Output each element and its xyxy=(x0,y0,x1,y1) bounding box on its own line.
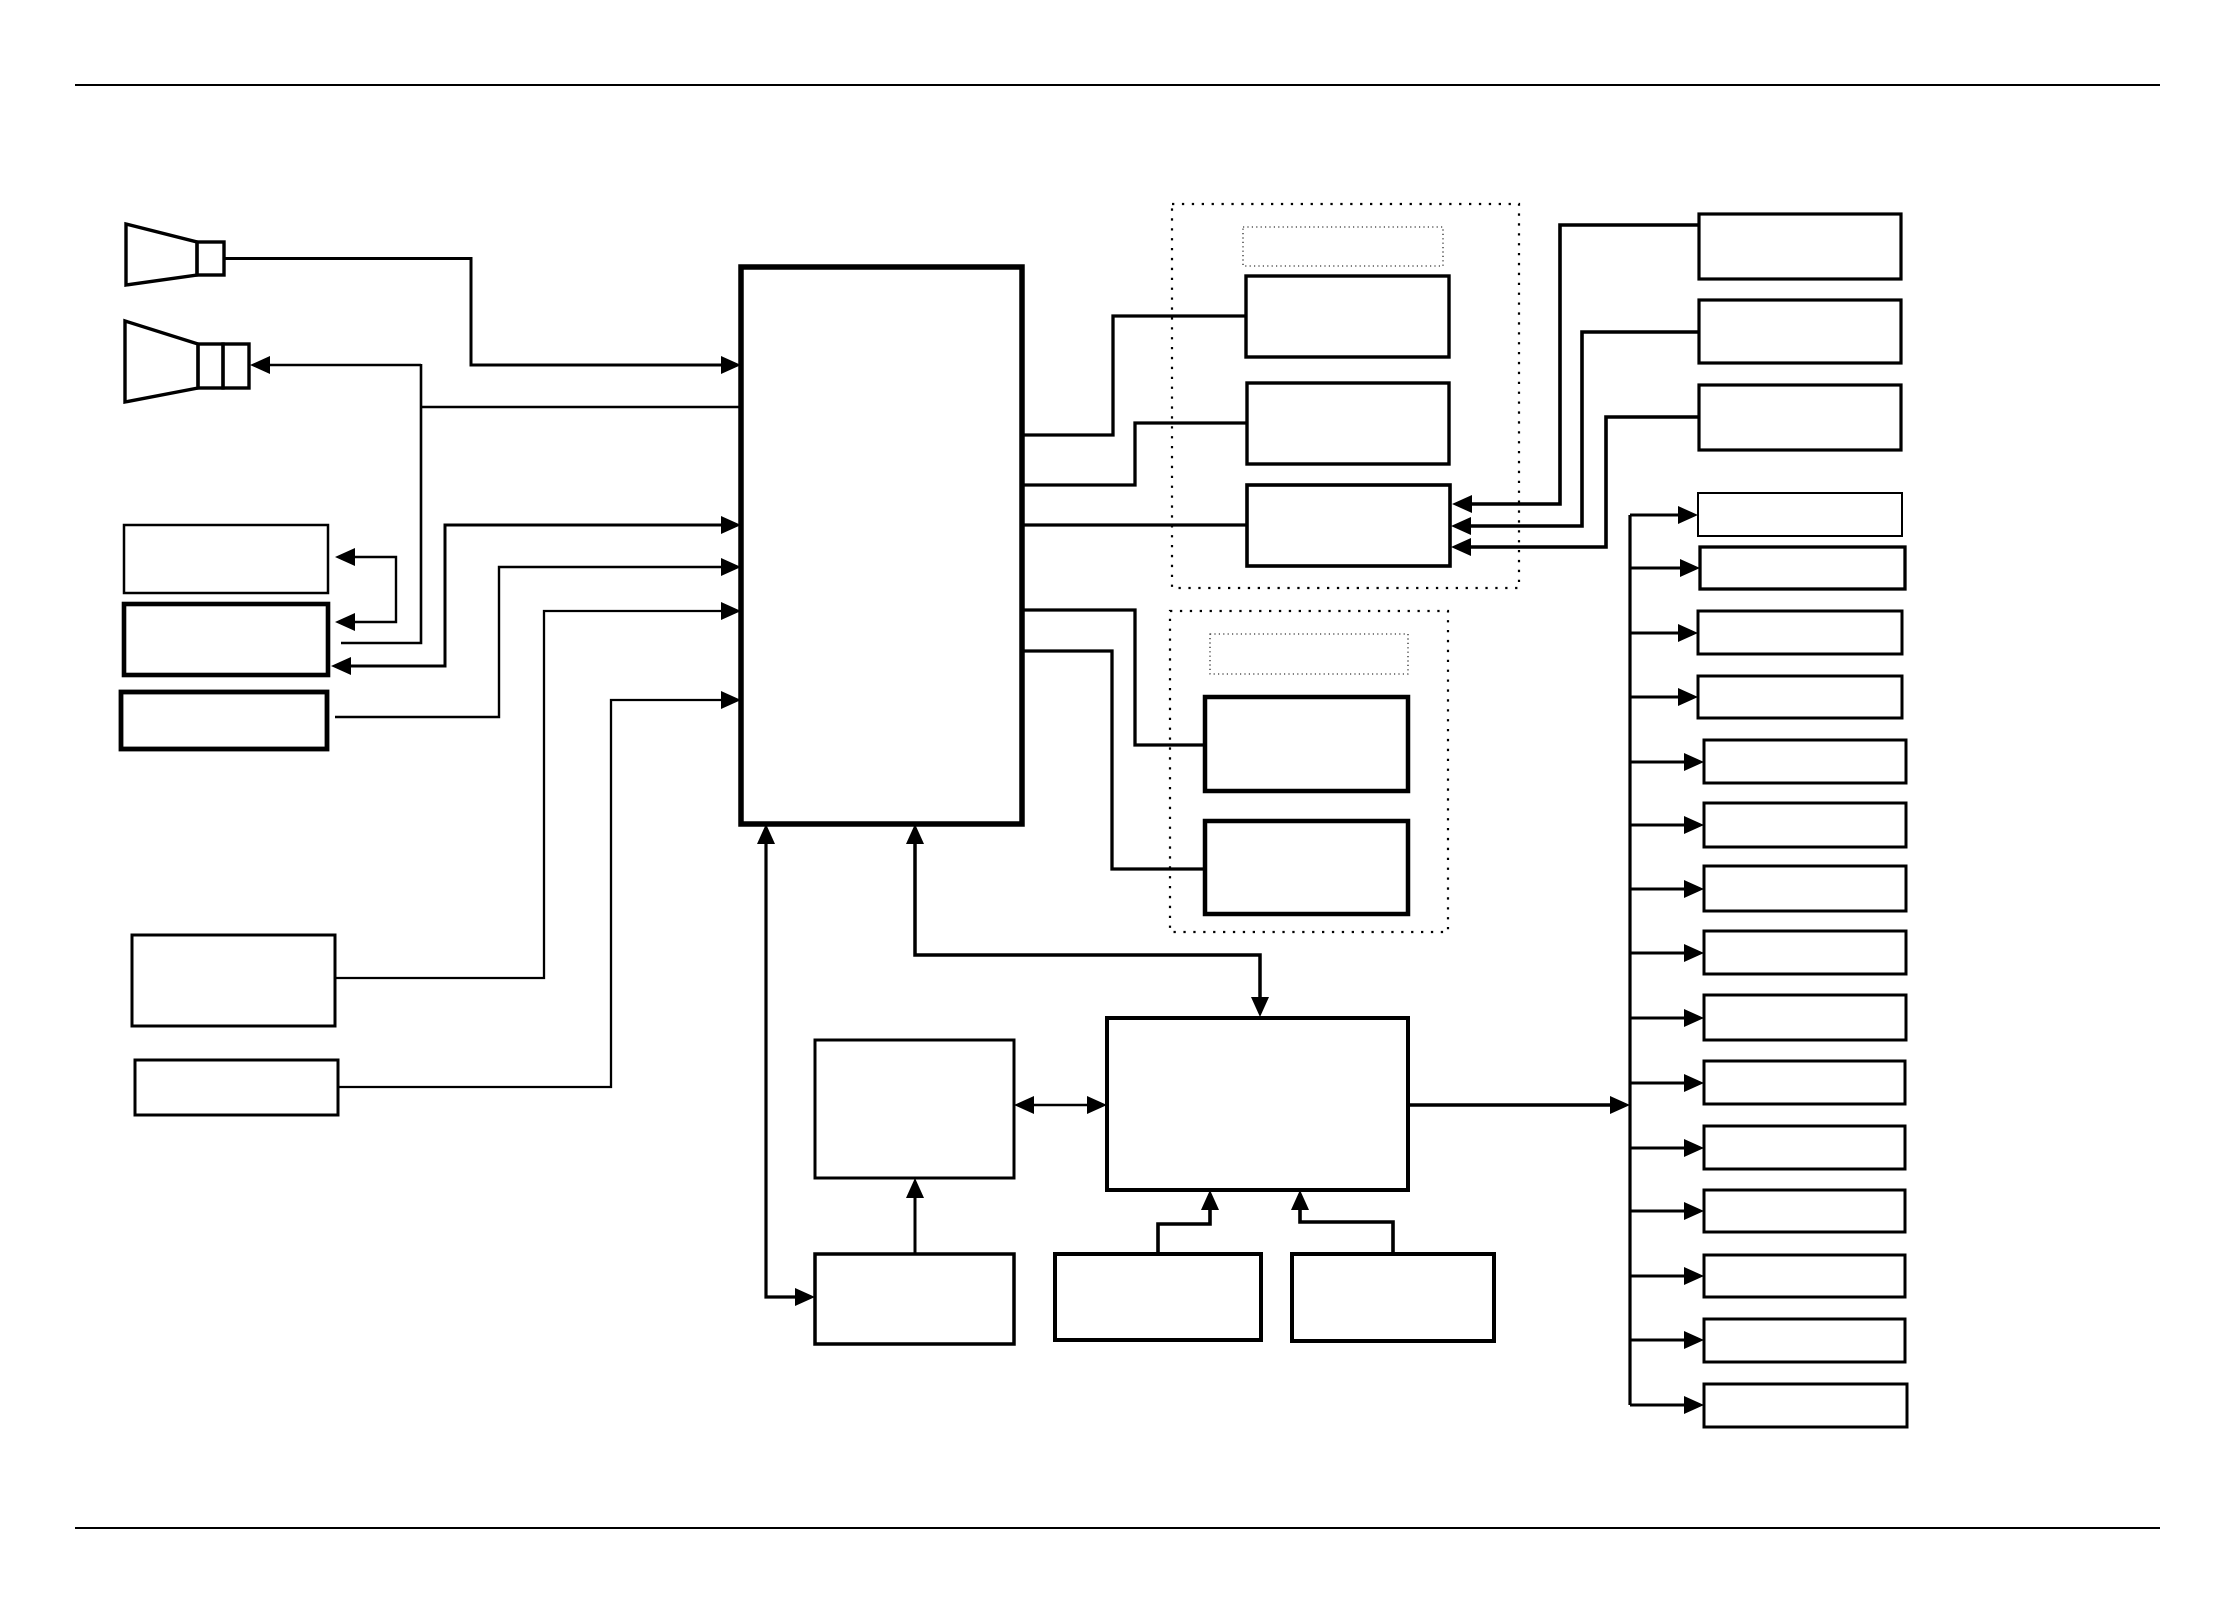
feeder branch to F4 xyxy=(1630,688,1698,706)
speaker SP1 xyxy=(126,224,224,285)
block F1 xyxy=(1698,493,1902,536)
speaker SP2 xyxy=(125,321,249,402)
block I xyxy=(815,1040,1014,1178)
block F11 xyxy=(1704,1126,1905,1169)
wire L2 to main block y700 xyxy=(338,691,741,1087)
block F12 xyxy=(1704,1190,1905,1232)
block L2 xyxy=(135,1060,338,1115)
feeder branch to F13 xyxy=(1630,1267,1704,1285)
feeder branch to F2 xyxy=(1630,559,1700,577)
block F9 xyxy=(1704,995,1906,1040)
wire main block to G2 xyxy=(1022,651,1205,869)
block F5 xyxy=(1704,740,1906,783)
feeder branch to F6 xyxy=(1630,816,1704,834)
wire C to main block y567 xyxy=(335,558,741,717)
dotted group 2 xyxy=(1170,611,1448,932)
block F14 xyxy=(1704,1319,1905,1362)
feeder branch to F12 xyxy=(1630,1202,1704,1220)
dotted group 1 xyxy=(1172,204,1519,588)
wire bidirectional main block and H xyxy=(906,824,1269,1017)
feeder branch to F1 xyxy=(1630,506,1698,524)
block F2 xyxy=(1700,547,1905,589)
feeder branch to F14 xyxy=(1630,1331,1704,1349)
feeder branch to F15 xyxy=(1630,1396,1704,1414)
block J1 xyxy=(1055,1254,1261,1340)
page bottom rule xyxy=(75,1527,2160,1529)
block F15 xyxy=(1704,1384,1907,1427)
feeder branch to F10 xyxy=(1630,1074,1704,1092)
wire E1 to D3 xyxy=(1452,225,1699,513)
feeder branch to F5 xyxy=(1630,753,1704,771)
block F3 xyxy=(1698,611,1902,654)
block F7 xyxy=(1704,866,1906,911)
wire main block to D3 xyxy=(1022,523,1247,526)
wire H output to feeder bus xyxy=(1408,1096,1630,1114)
block E3 xyxy=(1699,385,1901,450)
wire E2 to D3 xyxy=(1451,332,1699,535)
block B xyxy=(124,604,328,675)
wire SP1 output to main block input y365 xyxy=(224,259,741,375)
block D3 xyxy=(1247,485,1450,566)
block F8 xyxy=(1704,931,1906,974)
wire J1 to H xyxy=(1158,1190,1219,1254)
wire bidirectional main block and K xyxy=(757,824,815,1306)
block E2 xyxy=(1699,300,1901,363)
block A xyxy=(124,525,328,593)
block H xyxy=(1107,1018,1408,1190)
block G2 xyxy=(1205,821,1408,914)
wire bidirectional B and main block y525 xyxy=(331,516,741,675)
block D2 xyxy=(1247,383,1449,464)
dotted label box 2 xyxy=(1210,634,1408,674)
block C xyxy=(121,692,327,749)
feeder branch to F8 xyxy=(1630,944,1704,962)
wire main block to D1 xyxy=(1022,316,1246,435)
block E1 xyxy=(1699,214,1901,279)
block F13 xyxy=(1704,1255,1905,1297)
block F6 xyxy=(1704,803,1906,847)
wire K to I (arrow up) xyxy=(906,1178,924,1254)
feeder branch to F9 xyxy=(1630,1009,1704,1027)
block G1 xyxy=(1205,697,1408,791)
wire main block to G1 xyxy=(1022,610,1205,745)
main block U1 xyxy=(741,267,1022,824)
feeder branch to F3 xyxy=(1630,624,1698,642)
wire vertical bus x421 from SP2 line down to block B output xyxy=(341,364,421,643)
block F10 xyxy=(1704,1061,1905,1104)
block F4 xyxy=(1698,676,1902,718)
block K xyxy=(815,1254,1014,1344)
wire bidirectional I and H xyxy=(1014,1096,1107,1114)
wire E3 to D3 xyxy=(1451,417,1699,556)
page top rule xyxy=(75,84,2160,86)
block J2 xyxy=(1292,1254,1494,1341)
wire main block to D2 xyxy=(1022,423,1247,485)
feeder branch to F7 xyxy=(1630,880,1704,898)
wire into SP2 (arrow) from bus x421 xyxy=(250,356,421,374)
wire branch y407 from bus x421 into main block xyxy=(420,406,740,408)
wire L1 to main block y611 xyxy=(335,602,741,978)
wire loop between A and B (double arrow) xyxy=(335,548,396,631)
feeder bus vertical xyxy=(1628,515,1631,1405)
block D1 xyxy=(1246,276,1449,357)
block L1 xyxy=(132,935,335,1026)
feeder branch to F11 xyxy=(1630,1139,1704,1157)
dotted label box 1 xyxy=(1243,227,1443,266)
wire J2 to H xyxy=(1291,1190,1393,1254)
